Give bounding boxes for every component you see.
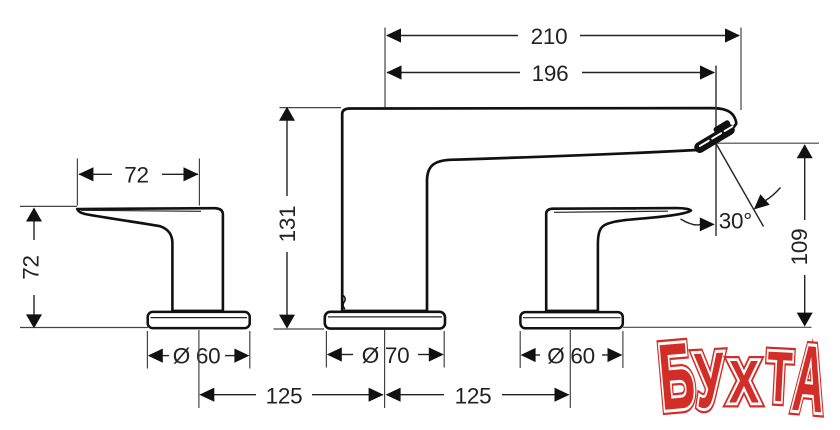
- svg-text:Ø 60: Ø 60: [547, 343, 595, 368]
- spout set screw detail: [343, 296, 345, 310]
- spout escutcheon: [325, 312, 445, 329]
- dimension 72 horizontal: [77, 159, 199, 206]
- svg-text:210: 210: [531, 24, 568, 49]
- svg-text:Х: Х: [729, 350, 760, 416]
- dimension 109: [623, 144, 813, 327]
- left handle top face line: [81, 210, 201, 211]
- svg-text:125: 125: [455, 383, 492, 408]
- extension line 109 top: [716, 142, 819, 144]
- left handle outline: [77, 208, 223, 311]
- spout body outline: [342, 108, 736, 311]
- spout aerator: [690, 119, 736, 155]
- extension line 196 / 30 degrees reference: [715, 66, 717, 237]
- svg-text:72: 72: [18, 255, 43, 279]
- dimension 30 degrees: [681, 144, 781, 234]
- svg-text:30°: 30°: [719, 209, 752, 234]
- dimension diameter 60 left: [147, 331, 249, 369]
- dimension 210: [385, 24, 741, 110]
- dimension 125 right: [386, 330, 571, 408]
- left handle escutcheon: [148, 312, 250, 328]
- svg-text:196: 196: [532, 61, 569, 86]
- svg-text:131: 131: [275, 206, 300, 243]
- dimension diameter 70: [326, 331, 444, 368]
- right handle escutcheon: [520, 312, 622, 328]
- left handle mounting bar: [172, 310, 224, 314]
- svg-text:Ø 70: Ø 70: [362, 343, 410, 368]
- svg-text:109: 109: [787, 229, 812, 266]
- svg-text:72: 72: [124, 163, 148, 188]
- svg-text:125: 125: [266, 383, 303, 408]
- svg-text:У: У: [693, 336, 727, 425]
- dimension 125 left: [199, 330, 385, 408]
- watermark BUHTA logo: [655, 322, 830, 430]
- svg-text:Ø 60: Ø 60: [173, 344, 221, 369]
- dimension 72 vertical: [18, 206, 148, 328]
- svg-text:Т: Т: [765, 337, 794, 418]
- spout mounting bar: [341, 310, 428, 314]
- dimension diameter 60 right: [520, 331, 623, 368]
- right handle mounting bar: [545, 310, 599, 314]
- right handle top face line: [554, 211, 668, 212]
- dimension 131: [274, 107, 342, 329]
- dimension 196: [387, 61, 716, 86]
- right handle outline: [546, 208, 691, 311]
